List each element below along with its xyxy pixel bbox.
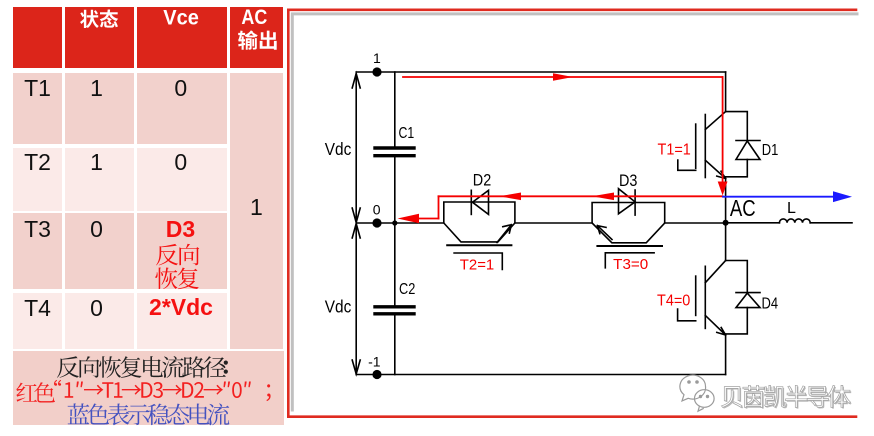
diode D1 [726,112,748,177]
diode D4 [726,261,748,334]
red current path: top bus [403,76,723,78]
T2 label box + T2=1 [454,253,502,269]
brand logo bubbles [680,375,714,411]
svg-text:T4=0: T4=0 [657,293,691,310]
table row T4 [13,295,62,322]
table row T2 [13,149,62,176]
slide frame red border [288,10,856,417]
note line2 红色"1"→T1→D3→D2→"0"; [0,0,2,2]
table row T3 [13,216,62,243]
table row T1 [13,75,62,102]
transistor T3 (IGBT) [592,203,665,243]
Vdc measurement arrow upper [355,74,357,221]
svg-text:Vdc: Vdc [325,139,352,159]
svg-text:Vdc: Vdc [325,297,352,317]
diode D2 [470,190,472,214]
inductor L [779,219,810,223]
svg-text:D1: D1 [762,142,779,159]
capacitor C2 [394,223,396,305]
node -1 [372,370,381,379]
svg-text:Vce: Vce [163,6,199,29]
svg-text:C2: C2 [399,281,415,298]
T4 Vce cell: 2*Vdc [136,294,226,321]
diode D3 [634,190,636,215]
node 0 [372,218,381,227]
svg-text:AC: AC [241,6,267,29]
blue steady-state current arrow [723,196,834,198]
red current path: down through T1 [722,77,724,183]
T3 Vce cell: D3 反向 恢复 [136,216,226,243]
Vdc measurement arrow lower [355,225,357,373]
svg-text:D3: D3 [619,171,637,190]
svg-text:T3=0: T3=0 [613,256,648,273]
header label AC输出 line2 [0,0,2,2]
red current path: down to node 0 [438,196,440,218]
header label 状态 [0,0,2,2]
svg-text:1: 1 [373,50,381,66]
svg-text:0: 0 [373,202,381,218]
svg-text:-1: -1 [368,354,381,370]
svg-text:D2: D2 [473,170,491,189]
note line1 colon dots [0,0,2,2]
svg-text:T1=1: T1=1 [658,141,691,158]
svg-text:L: L [787,200,796,217]
node AC [723,220,729,226]
wire inductor to edge [810,222,852,224]
brand name 贝茵凯半导体 [0,0,2,2]
node 1 [372,67,381,76]
transistor T4 (IGBT) [725,223,727,261]
wire T2-T3 [515,222,592,224]
svg-text:D4: D4 [762,296,779,313]
table background cells [13,7,62,68]
red current path: AC back through D3 D2 [439,195,723,197]
slide frame gray bevel [292,14,857,410]
transistor T2 (IGBT) [444,202,515,242]
svg-text:AC: AC [730,195,756,221]
T3 label box + T3=0 [605,253,654,268]
note line3 蓝色表示稳态电流 [0,0,2,2]
transistor T1 (IGBT) [725,72,727,112]
svg-text:T2=1: T2=1 [460,256,494,273]
note line1 反向恢复电流路径： [0,0,2,2]
brand name 贝茵凯半导体 shadow [0,0,2,2]
svg-text:C1: C1 [399,125,415,142]
wire: node 0 rail [356,222,444,224]
wire: top bus node1 to T1 [356,71,725,73]
wire AC to inductor [726,222,780,224]
capacitor C1 [394,72,396,146]
wire: bottom bus node -1 to T4 [356,374,725,376]
wire T3 to AC node [665,222,726,224]
AC output merged cell value 1 [230,194,283,221]
junction C-branch on rail 0 [392,220,397,225]
